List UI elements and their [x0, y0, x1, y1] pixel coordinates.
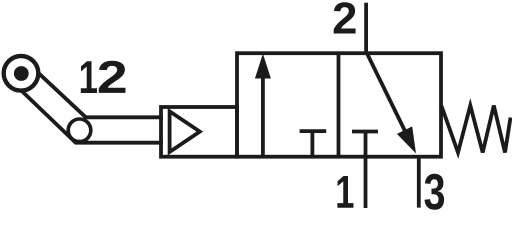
roller inner dot [14, 66, 29, 81]
roller outer circle [4, 56, 39, 91]
port label 12 digit 2 [99, 61, 126, 93]
left square blocked port T bar [300, 129, 327, 133]
port 2 line [364, 3, 368, 53]
left square flow arrow stem [261, 72, 265, 157]
port 3 line [417, 157, 421, 208]
port label 3 [425, 174, 445, 210]
lever arm lower line [10, 80, 163, 143]
actuator triangle [170, 111, 200, 152]
left square flow arrow head [255, 54, 271, 79]
valve body outline [237, 53, 441, 157]
port label 12 digit 1 [81, 61, 97, 93]
right square blocked port T bar [352, 130, 378, 134]
port label 2 [334, 2, 356, 33]
lever pivot circle [68, 119, 91, 142]
left square blocked port T stem [310, 131, 314, 157]
right square blocked port T stem and port 1 line [364, 132, 368, 209]
port label 1 [337, 176, 353, 208]
lever arm upper line [27, 63, 163, 118]
valve position divider [337, 53, 341, 157]
return spring [442, 106, 511, 153]
right square diagonal arrow head [397, 126, 416, 153]
actuator box [161, 107, 237, 157]
right square diagonal flow line [367, 53, 407, 136]
